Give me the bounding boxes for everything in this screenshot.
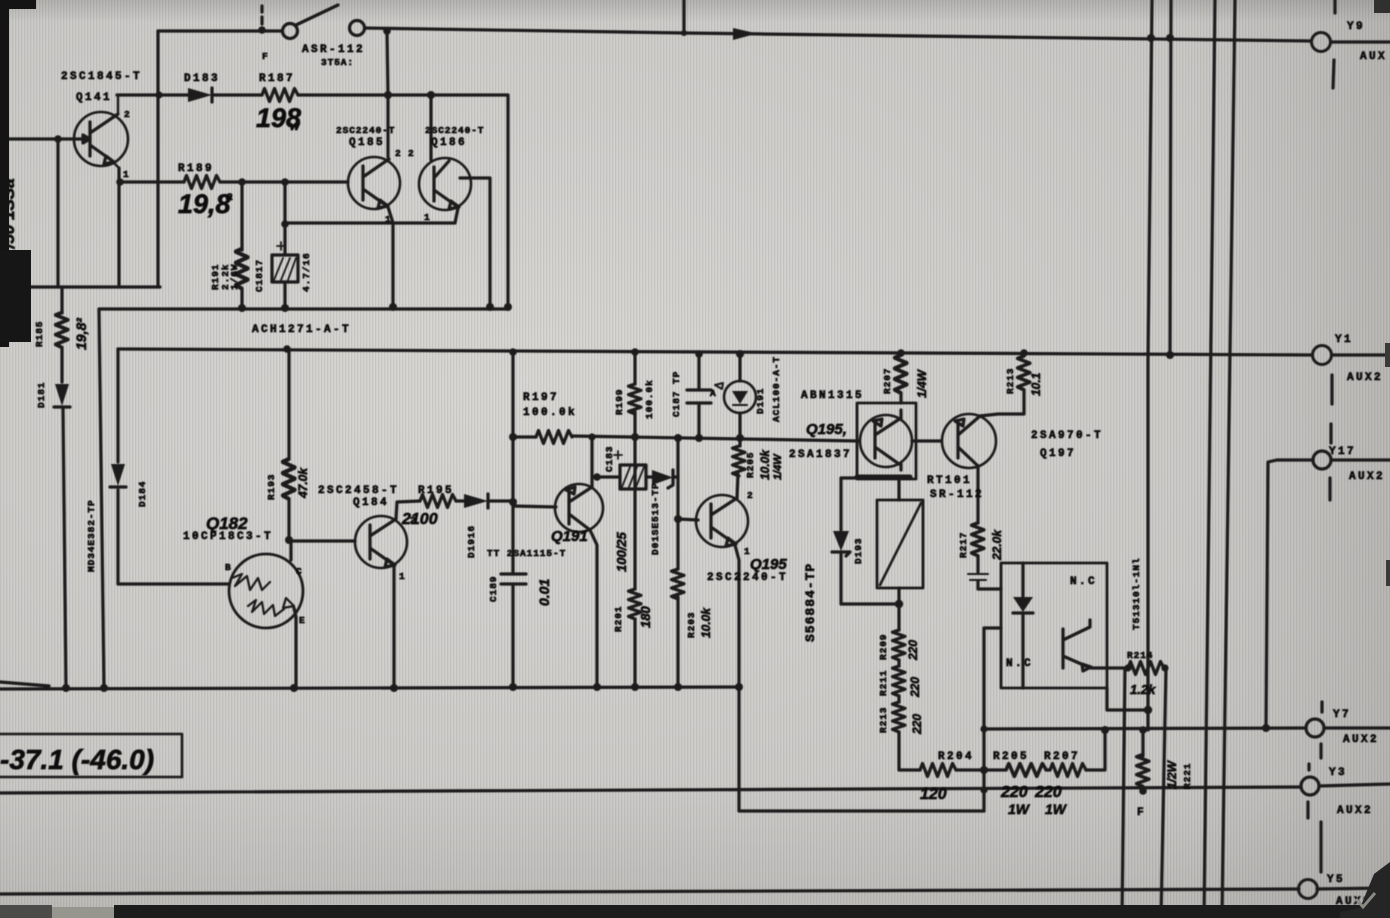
wire chain bottom to R204 [899, 732, 920, 770]
junction dot x1105 y730 [1101, 726, 1109, 734]
svg-text:1: 1 [385, 214, 392, 225]
resistor R193 vertical [283, 459, 296, 499]
svg-text:19,8: 19,8 [178, 189, 231, 219]
svg-text:D191: D191 [755, 388, 766, 414]
resistor R205 vertical [733, 438, 746, 476]
svg-text:2: 2 [395, 148, 402, 159]
svg-text:2: 2 [410, 515, 417, 526]
connector Y7 [1306, 702, 1390, 758]
resistor R195 [420, 495, 456, 508]
svg-text:C187 TP: C187 TP [671, 371, 682, 417]
svg-text:1: 1 [744, 546, 751, 557]
svg-text:N.C: N.C [1070, 576, 1097, 588]
long vertical bus C x1213 [1204, 0, 1215, 918]
svg-text:-37.1 (-46.0): -37.1 (-46.0) [0, 744, 154, 775]
svg-text:ABN1315: ABN1315 [801, 390, 864, 402]
junction dot top rail x262 [258, 26, 266, 34]
svg-text:R211: R211 [878, 670, 889, 696]
black nub top-left corner [0, 0, 36, 9]
junction dots R219 [1124, 664, 1168, 671]
svg-text:1W: 1W [1008, 801, 1031, 817]
svg-text:R197: R197 [523, 392, 559, 404]
wire Q184 emitter down [392, 566, 395, 687]
junction dots y354 [283, 345, 1028, 358]
junction dot x899 y604 [895, 600, 903, 608]
resistor R213b vertical [893, 696, 906, 732]
wire Q184 collector to R195 rail [396, 501, 420, 519]
wire Q186 collector drop [429, 95, 432, 160]
svg-text:1: 1 [123, 169, 130, 180]
capacitor C189 [501, 574, 526, 584]
wire top supply rail [158, 28, 1311, 41]
svg-text:AUX2: AUX2 [1337, 805, 1373, 817]
wire Q193 base [678, 519, 698, 520]
svg-text:Y1: Y1 [1335, 334, 1353, 346]
junction dots top rail bus crossings [1147, 34, 1174, 42]
wire zener branch x841 [841, 478, 899, 604]
wire Q193 collector R205 [737, 474, 738, 498]
svg-text:1.2k: 1.2k [1130, 682, 1156, 697]
wire Q191 emitter up [590, 437, 593, 487]
svg-text:AUX2: AUX2 [1343, 734, 1379, 746]
svg-text:R185: R185 [34, 321, 45, 347]
wire relay bottom to chain [897, 588, 900, 630]
connector Y9 [1312, 0, 1390, 88]
transistor Q191 [555, 484, 603, 532]
resistor R201 vertical [629, 589, 642, 619]
wire bottom rail y894 [0, 889, 1299, 894]
wire Q186 collector right [470, 178, 490, 307]
black photo border left edge [0, 0, 9, 347]
resistor R191 vertical [236, 182, 249, 308]
transistor Q186 [419, 158, 471, 210]
wire aux rail y728 [984, 728, 1306, 729]
wire vertical net x513 [511, 352, 514, 687]
photocoupler Q182 [229, 541, 303, 688]
svg-text:ACL100-A-T: ACL100-A-T [771, 356, 782, 422]
connector Y1 [1313, 346, 1390, 444]
svg-text:D183: D183 [184, 73, 220, 85]
wire bus E x1125 [1122, 668, 1125, 918]
svg-text:220: 220 [910, 714, 924, 735]
wire R193 branch x289 [287, 349, 290, 540]
wire Q196 to Q197 base [901, 441, 941, 470]
resistor R219 [1128, 662, 1166, 675]
svg-text:R205: R205 [993, 751, 1029, 763]
svg-text:2SC1845-T: 2SC1845-T [61, 71, 142, 83]
svg-text:2: 2 [408, 148, 415, 159]
svg-text:A: A [710, 388, 717, 399]
svg-text:C189: C189 [488, 576, 499, 602]
wire relay coil top [897, 479, 900, 500]
junction dots x984 [980, 725, 987, 793]
svg-text:220: 220 [1000, 784, 1028, 801]
svg-text:0.01: 0.01 [536, 579, 552, 606]
svg-text:R193: R193 [266, 474, 277, 500]
svg-text:S56884-TP: S56884-TP [803, 563, 818, 642]
svg-text:Q184: Q184 [353, 497, 389, 509]
wire branch x635 R199 R201 [633, 352, 636, 687]
resistor R207b [1046, 764, 1086, 777]
wire heavy Q196 box bottom [857, 475, 910, 480]
wire box left pin [984, 628, 1001, 811]
wire y287 left block bottom [6, 285, 160, 288]
svg-text:AUX: AUX [1360, 51, 1387, 63]
svg-text:Q195: Q195 [750, 556, 787, 573]
wire vertical x160 from top rail [156, 31, 159, 287]
svg-text:D01SE513-TP: D01SE513-TP [650, 482, 661, 555]
svg-text:120: 120 [920, 786, 947, 803]
wire branch x678 R203 [676, 438, 679, 687]
junction dots ground rail [62, 683, 743, 692]
connector Y5 [1299, 822, 1390, 899]
box measurement -37.1 [0, 734, 182, 777]
dark nub right edge lower [1386, 560, 1390, 586]
resistor R197 [536, 431, 572, 444]
junction dot x1148 y710 [1144, 706, 1152, 714]
LED D191 indicator [715, 354, 756, 438]
junction dots y95 [155, 91, 435, 99]
svg-text:180: 180 [638, 606, 653, 628]
svg-text:ASR-112: ASR-112 [302, 44, 365, 56]
wire ground rail y688 [0, 682, 739, 689]
resistor R185 vertical [56, 287, 69, 688]
resistor R205b [1006, 764, 1046, 777]
wire left block edge x118 [118, 349, 229, 584]
transistor Q197 [942, 414, 996, 468]
dark nub right edge mid [1385, 343, 1390, 367]
capacitor C187 [687, 390, 711, 403]
wire mid rail y355 [118, 349, 1312, 355]
svg-text:2SA1837: 2SA1837 [789, 449, 852, 461]
connector Y3 [1301, 764, 1390, 818]
transistor Q184 [355, 516, 407, 568]
wire Q184 base [289, 539, 355, 542]
resistor R221 vertical [1137, 730, 1150, 792]
svg-text:2: 2 [124, 109, 131, 120]
svg-text:w: w [290, 119, 300, 133]
transistor Q193 [696, 495, 748, 547]
junction dots y182 [116, 178, 289, 186]
svg-text:D181: D181 [36, 382, 47, 408]
svg-text:AUX2: AUX2 [1349, 471, 1385, 483]
diode D183 [188, 88, 212, 102]
svg-text:R204: R204 [938, 751, 974, 763]
svg-text:ACH1271-A-T: ACH1271-A-T [252, 324, 351, 336]
junction dot x678 y519 [674, 515, 682, 523]
diode D193 zener [652, 470, 673, 488]
svg-text:Q141: Q141 [76, 92, 112, 104]
svg-text:D193: D193 [853, 538, 864, 564]
svg-text:R207: R207 [882, 368, 893, 394]
resistor R187 [262, 89, 298, 102]
wire branch x699 C187 [697, 354, 700, 438]
photocoupler LED [1013, 563, 1033, 688]
svg-text:MD34E382-TP: MD34E382-TP [86, 499, 97, 572]
svg-text:100/25: 100/25 [614, 531, 629, 572]
dark strip bottom [114, 905, 1390, 918]
svg-text:R213: R213 [878, 707, 889, 733]
transistor Q185 [348, 157, 400, 209]
diode D181 zener [54, 384, 70, 407]
diode D184 [110, 464, 126, 487]
svg-text:220: 220 [906, 640, 920, 661]
switch S1 ASR-112 [262, 5, 365, 39]
svg-text:10.0k: 10.0k [699, 607, 713, 638]
wire Q197 emitter to R213 [980, 390, 1024, 416]
junction dot x285 y223 [281, 220, 289, 228]
svg-text:R214: R214 [1127, 650, 1153, 661]
svg-text:D1916: D1916 [466, 525, 477, 558]
wire diode rail y95 [117, 95, 508, 307]
wire R207b to aux rail [1086, 730, 1105, 770]
svg-text:N.C: N.C [1006, 658, 1033, 670]
resistor R189 [184, 176, 220, 189]
svg-text:R213: R213 [1005, 368, 1016, 394]
svg-text:F: F [262, 51, 269, 62]
dark nub top-right corner [1374, 0, 1390, 13]
svg-text:2SA970-T: 2SA970-T [1031, 430, 1103, 442]
svg-text:R201: R201 [613, 606, 624, 632]
svg-text:Q197: Q197 [1040, 448, 1076, 460]
svg-text:1/6W: 1/6W [229, 264, 240, 290]
junction dot mid rail x1170 [1166, 351, 1174, 359]
svg-text:220: 220 [908, 677, 922, 698]
light gap bottom strip [52, 907, 118, 918]
svg-text:Y3: Y3 [1329, 767, 1347, 779]
svg-text:R195: R195 [418, 485, 454, 497]
svg-text:RT101: RT101 [927, 475, 972, 487]
svg-text:19,8²: 19,8² [73, 318, 89, 350]
wire zener branch y477 [597, 475, 678, 478]
svg-text:1/2W: 1/2W [1165, 759, 1179, 789]
svg-text:Q182: Q182 [206, 514, 248, 533]
wire Q191 collector down x597 [590, 530, 597, 687]
wire box corner to bus [1107, 688, 1148, 710]
relay RT101 [877, 500, 923, 588]
svg-text:D184: D184 [137, 481, 148, 507]
black photo blotch left [0, 250, 31, 342]
svg-text:R207: R207 [1044, 751, 1080, 763]
wire x58 down [56, 139, 59, 287]
svg-text:R217: R217 [958, 532, 969, 558]
capacitor below R217 [968, 556, 1001, 589]
resistor R211 vertical [893, 660, 906, 696]
junction dot top rail x387 [383, 27, 391, 35]
wire Q185 Q186 emitters to y223 [285, 207, 458, 307]
diode D191 series [456, 494, 513, 508]
svg-text:R203: R203 [686, 612, 697, 638]
wire Q185 collector drop [387, 31, 388, 157]
svg-text:R221: R221 [1182, 763, 1193, 789]
wire bus F x1165 [1161, 668, 1166, 918]
wire Q141 emitter down x120 [117, 168, 120, 287]
junction dot x597 y477 [593, 473, 601, 481]
svg-text:Y9: Y9 [1347, 21, 1365, 33]
transistor Q196 [860, 415, 912, 467]
dark strip bottom-left [0, 905, 52, 918]
svg-text:Y17: Y17 [1329, 446, 1356, 458]
wire R197 rail y437 [513, 436, 858, 441]
svg-text:TT 2SA1115-T: TT 2SA1115-T [487, 548, 566, 559]
wire Q141 base rail y139 [0, 135, 90, 143]
svg-text:4.7/16: 4.7/16 [301, 252, 312, 292]
resistor R209 vertical [893, 630, 906, 660]
resistor R199 vertical [629, 384, 642, 414]
svg-text:F: F [1137, 807, 1146, 819]
long vertical bus B x1170 [1170, 0, 1171, 355]
svg-text:T51310l-1Nl: T51310l-1Nl [1131, 557, 1142, 630]
transistor Q141 [74, 95, 128, 168]
junction dot x1266 y728 [1262, 724, 1270, 732]
resistor R213 vertical [1018, 353, 1031, 390]
svg-text:B: B [225, 562, 232, 573]
junction dot x289 y540 [285, 536, 293, 544]
connector Y17 [1277, 451, 1390, 500]
diode D195 zener [832, 531, 850, 556]
svg-text:R189: R189 [178, 163, 214, 175]
dark wedge bottom-right corner [1340, 862, 1390, 918]
check mark in wedge [1356, 893, 1375, 907]
arrow on top rail [733, 28, 757, 40]
capacitor C183 electrolytic [614, 451, 646, 489]
svg-text:C183: C183 [604, 446, 615, 472]
resistor R207 vertical [895, 355, 908, 418]
svg-text:1W: 1W [1045, 801, 1068, 817]
resistor R204 [920, 764, 956, 777]
svg-text:100.0k: 100.0k [644, 379, 655, 419]
svg-text:E: E [299, 615, 306, 626]
svg-text:Q185: Q185 [349, 137, 385, 149]
junction dots R221 [1139, 726, 1147, 795]
svg-text:47.0k: 47.0k [296, 467, 310, 499]
junction dot x58 y139 [54, 135, 62, 143]
wire rail y792 [0, 787, 1301, 793]
package box Q196 [857, 403, 916, 479]
svg-text:3T5A:: 3T5A: [321, 57, 354, 68]
long vertical bus A x1150 [1148, 0, 1152, 730]
svg-text:1/4W: 1/4W [772, 453, 784, 480]
junction dot x635 y352 [631, 348, 639, 356]
svg-text:2SC2240-T: 2SC2240-T [336, 125, 395, 136]
wire stub node top x684 [682, 0, 685, 33]
wire Q191 base [513, 506, 556, 507]
svg-text:R205: R205 [745, 452, 756, 478]
junction dots y437 [588, 433, 744, 442]
svg-text:Q186: Q186 [431, 137, 467, 149]
svg-text:Y7: Y7 [1333, 709, 1351, 721]
svg-text:a: a [226, 189, 233, 203]
svg-text:10.1: 10.1 [1029, 372, 1043, 396]
junction dot x984 y770 [980, 766, 988, 774]
junction dots x513 [509, 348, 517, 506]
svg-text:220: 220 [1034, 784, 1062, 801]
svg-text:R209: R209 [878, 634, 889, 660]
wire Q193 emitter down x739 [735, 545, 984, 811]
svg-text:2: 2 [747, 490, 754, 501]
svg-text:2SC2240-T: 2SC2240-T [425, 125, 484, 136]
wire Q197 collector down [976, 466, 979, 523]
wire block bottom y307 [99, 309, 508, 688]
svg-text:C1817: C1817 [254, 259, 265, 292]
svg-text:2SC2240-T: 2SC2240-T [707, 572, 788, 584]
photocoupler transistor [1063, 620, 1125, 671]
svg-text:10.0k: 10.0k [758, 449, 772, 480]
svg-text:1: 1 [399, 571, 406, 582]
resistor R217 vertical [972, 523, 985, 556]
resistor R203 vertical [672, 569, 685, 599]
svg-text:22.0k: 22.0k [990, 529, 1004, 561]
wire Y17 feed down to Y7 rail [1266, 460, 1277, 728]
svg-text:Y5: Y5 [1327, 874, 1345, 886]
photocoupler box IC [1001, 563, 1107, 688]
long vertical bus D x1232 [1222, 0, 1235, 918]
svg-text:AUX2: AUX2 [1347, 372, 1383, 384]
capacitor C181 electrolytic [272, 182, 298, 308]
svg-text:2SC2458-T: 2SC2458-T [318, 485, 399, 497]
junction dots y307 [238, 303, 512, 312]
svg-text:100.0k: 100.0k [523, 407, 577, 419]
svg-text:R199: R199 [614, 389, 625, 415]
svg-text:C: C [296, 566, 303, 577]
wire y770 [956, 768, 1006, 771]
svg-text:1: 1 [424, 212, 431, 223]
wire base rail y182 [119, 180, 348, 183]
svg-text:R187: R187 [259, 73, 295, 85]
svg-text:Q195,: Q195, [806, 421, 847, 438]
svg-text:1/4W: 1/4W [915, 368, 929, 398]
svg-text:Q191: Q191 [551, 528, 588, 545]
svg-text:2100: 2100 [401, 511, 438, 528]
svg-text:SR-112: SR-112 [930, 489, 984, 501]
